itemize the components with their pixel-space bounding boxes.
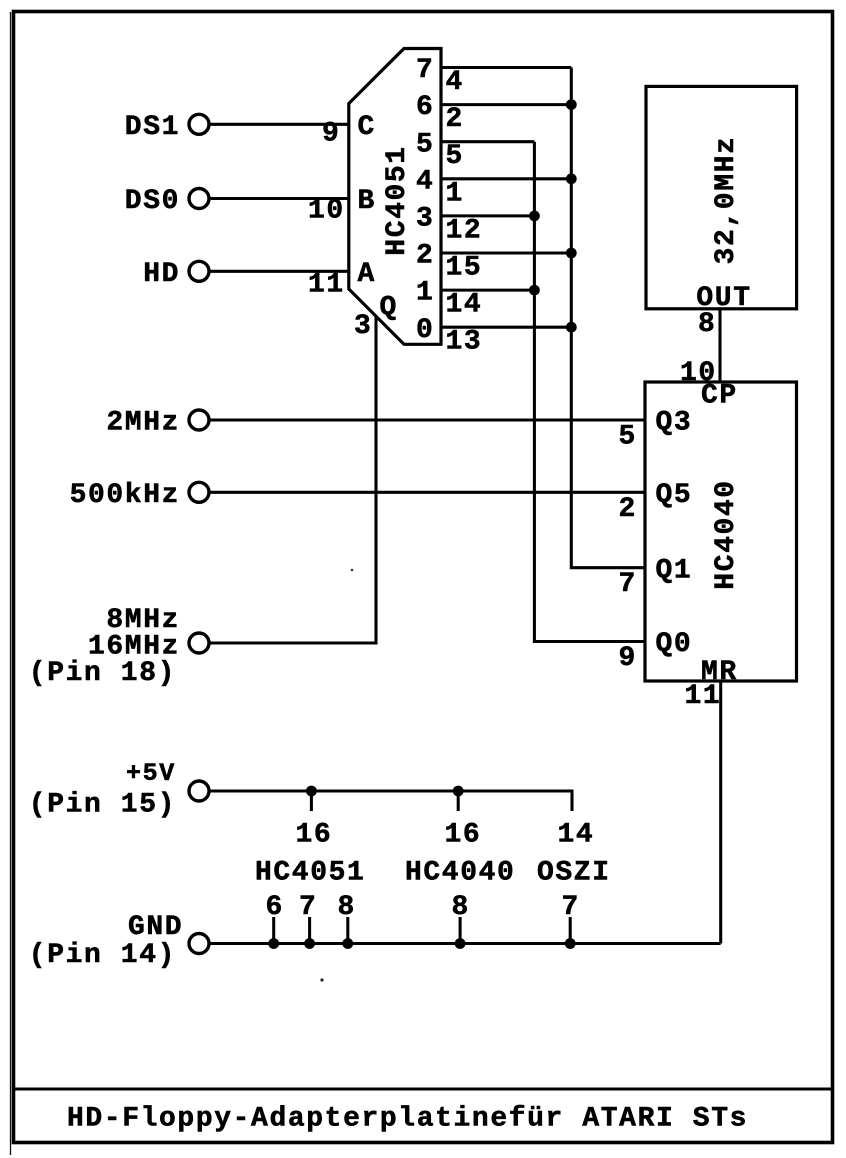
svg-text:1: 1: [446, 178, 464, 209]
svg-text:A: A: [358, 259, 376, 290]
svg-text:Q3: Q3: [656, 408, 693, 439]
svg-text:Q: Q: [380, 293, 398, 324]
left edge scan line: [10, 12, 12, 1155]
speck: [351, 569, 354, 572]
svg-text:13: 13: [446, 327, 483, 358]
svg-text:16: 16: [296, 820, 333, 851]
wire GND rail: [209, 942, 721, 945]
svg-text:Q0: Q0: [656, 629, 693, 660]
svg-text:9: 9: [322, 119, 340, 150]
wire Q pin3 vertical: [209, 316, 376, 643]
svg-text:6: 6: [416, 92, 434, 123]
svg-text:+5V: +5V: [126, 759, 176, 788]
terminal GND: [189, 934, 209, 954]
svg-text:(Pin 14): (Pin 14): [29, 940, 176, 971]
svg-text:5: 5: [446, 141, 464, 172]
svg-text:HD: HD: [143, 259, 180, 290]
svg-text:DS1: DS1: [125, 112, 180, 143]
svg-text:HD-Floppy-Adapterplatinefür AT: HD-Floppy-Adapterplatinefür ATARI STs: [67, 1104, 748, 1135]
svg-text:12: 12: [446, 215, 483, 246]
terminal 500kHz: [189, 482, 209, 502]
wire MR to GND: [719, 681, 722, 944]
svg-text:500kHz: 500kHz: [70, 480, 180, 511]
gnd stub 6: [272, 917, 275, 944]
wire 2MHz to Q3: [209, 418, 645, 421]
svg-text:16: 16: [445, 820, 482, 851]
svg-text:1: 1: [416, 278, 434, 309]
wire ch6: [441, 103, 571, 106]
wire OUT to CP: [718, 309, 721, 382]
svg-text:32,0MHz: 32,0MHz: [711, 136, 742, 265]
svg-text:(Pin 15): (Pin 15): [29, 790, 176, 821]
bus inner to Q0: [534, 142, 645, 642]
bus outer to Q1: [571, 68, 645, 568]
gnd stub 8 HC4040: [459, 917, 462, 944]
svg-text:OSZI: OSZI: [537, 858, 611, 889]
svg-text:11: 11: [685, 681, 722, 712]
stub 16 HC4040: [457, 791, 460, 811]
wire ch0: [441, 326, 571, 329]
svg-text:11: 11: [308, 270, 345, 301]
svg-text:2MHz: 2MHz: [106, 408, 180, 439]
svg-text:0: 0: [416, 315, 434, 346]
svg-text:(Pin 18): (Pin 18): [29, 658, 176, 689]
wire ch5: [441, 140, 534, 143]
junction dots outer bus: [566, 99, 577, 110]
gnd stub 8: [346, 917, 349, 944]
terminal +5V: [189, 781, 209, 801]
svg-text:7: 7: [416, 55, 434, 86]
stub 16 HC4051: [310, 791, 313, 811]
svg-text:4: 4: [416, 166, 434, 197]
wire ch7: [441, 66, 571, 69]
gnd stub 7 OSZI: [569, 917, 572, 944]
terminal 2MHz: [189, 410, 209, 430]
counter U2 HC4040 box: [645, 382, 797, 681]
svg-text:CP: CP: [701, 381, 738, 412]
gnd stub 7: [308, 917, 311, 944]
svg-text:7: 7: [619, 569, 637, 600]
wire ch4: [441, 177, 571, 180]
title bar separator: [13, 1088, 833, 1091]
svg-text:2: 2: [416, 241, 434, 272]
svg-text:15: 15: [446, 253, 483, 284]
svg-text:HC4051: HC4051: [255, 858, 365, 889]
svg-text:14: 14: [446, 290, 483, 321]
wire DS0 to pin B: [209, 197, 349, 200]
junction dots inner bus: [529, 211, 540, 222]
wire 500kHz to Q5: [209, 491, 645, 494]
wire +5V rail: [209, 791, 572, 811]
terminal DS0: [189, 189, 209, 209]
svg-text:8: 8: [698, 309, 716, 340]
terminal HD: [189, 261, 209, 281]
speck: [320, 978, 323, 981]
terminal 16MHz: [189, 633, 209, 653]
wire HD to pin A: [209, 270, 349, 273]
svg-text:5: 5: [619, 422, 637, 453]
svg-text:14: 14: [558, 820, 595, 851]
svg-text:B: B: [358, 186, 376, 217]
svg-text:2: 2: [446, 104, 464, 135]
wire ch2: [441, 251, 571, 254]
wire DS1 to pin C: [209, 123, 349, 126]
wire ch1: [441, 289, 534, 292]
svg-text:DS0: DS0: [125, 186, 180, 217]
mux U1 HC4051 outline: [349, 49, 441, 345]
svg-text:HC4051: HC4051: [382, 145, 413, 255]
svg-text:Q1: Q1: [656, 555, 693, 586]
mux U1 HC4051 vertical label: [382, 145, 413, 255]
svg-text:2: 2: [619, 494, 637, 525]
svg-text:C: C: [358, 112, 376, 143]
oscillator box 32,0MHz: [646, 86, 797, 308]
svg-text:4: 4: [446, 67, 464, 98]
svg-text:5: 5: [416, 129, 434, 160]
svg-text:GND: GND: [128, 912, 183, 943]
svg-text:HC4040: HC4040: [405, 858, 515, 889]
svg-text:Q5: Q5: [656, 480, 693, 511]
svg-text:9: 9: [619, 643, 637, 674]
svg-text:3: 3: [416, 204, 434, 235]
svg-text:10: 10: [308, 196, 345, 227]
svg-text:3: 3: [354, 311, 372, 342]
wire ch3: [441, 214, 534, 217]
svg-text:HC4040: HC4040: [711, 479, 742, 589]
terminal DS1: [189, 114, 209, 134]
